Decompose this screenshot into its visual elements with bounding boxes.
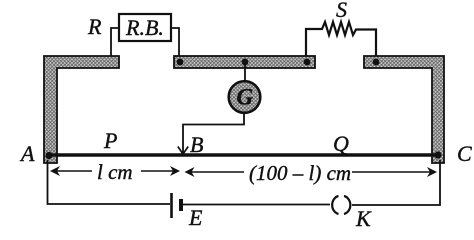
svg-text:S: S [336, 0, 347, 22]
svg-text:(100 – l) cm: (100 – l) cm [249, 161, 351, 185]
svg-text:Q: Q [333, 131, 349, 156]
svg-text:A: A [19, 141, 35, 166]
svg-text:R.B.: R.B. [125, 15, 164, 40]
svg-text:E: E [188, 205, 203, 230]
svg-text:l cm: l cm [97, 160, 133, 184]
svg-text:P: P [103, 128, 117, 153]
svg-text:R: R [87, 14, 102, 39]
svg-text:C: C [457, 141, 472, 166]
svg-text:G: G [237, 85, 254, 110]
svg-text:K: K [355, 206, 372, 231]
